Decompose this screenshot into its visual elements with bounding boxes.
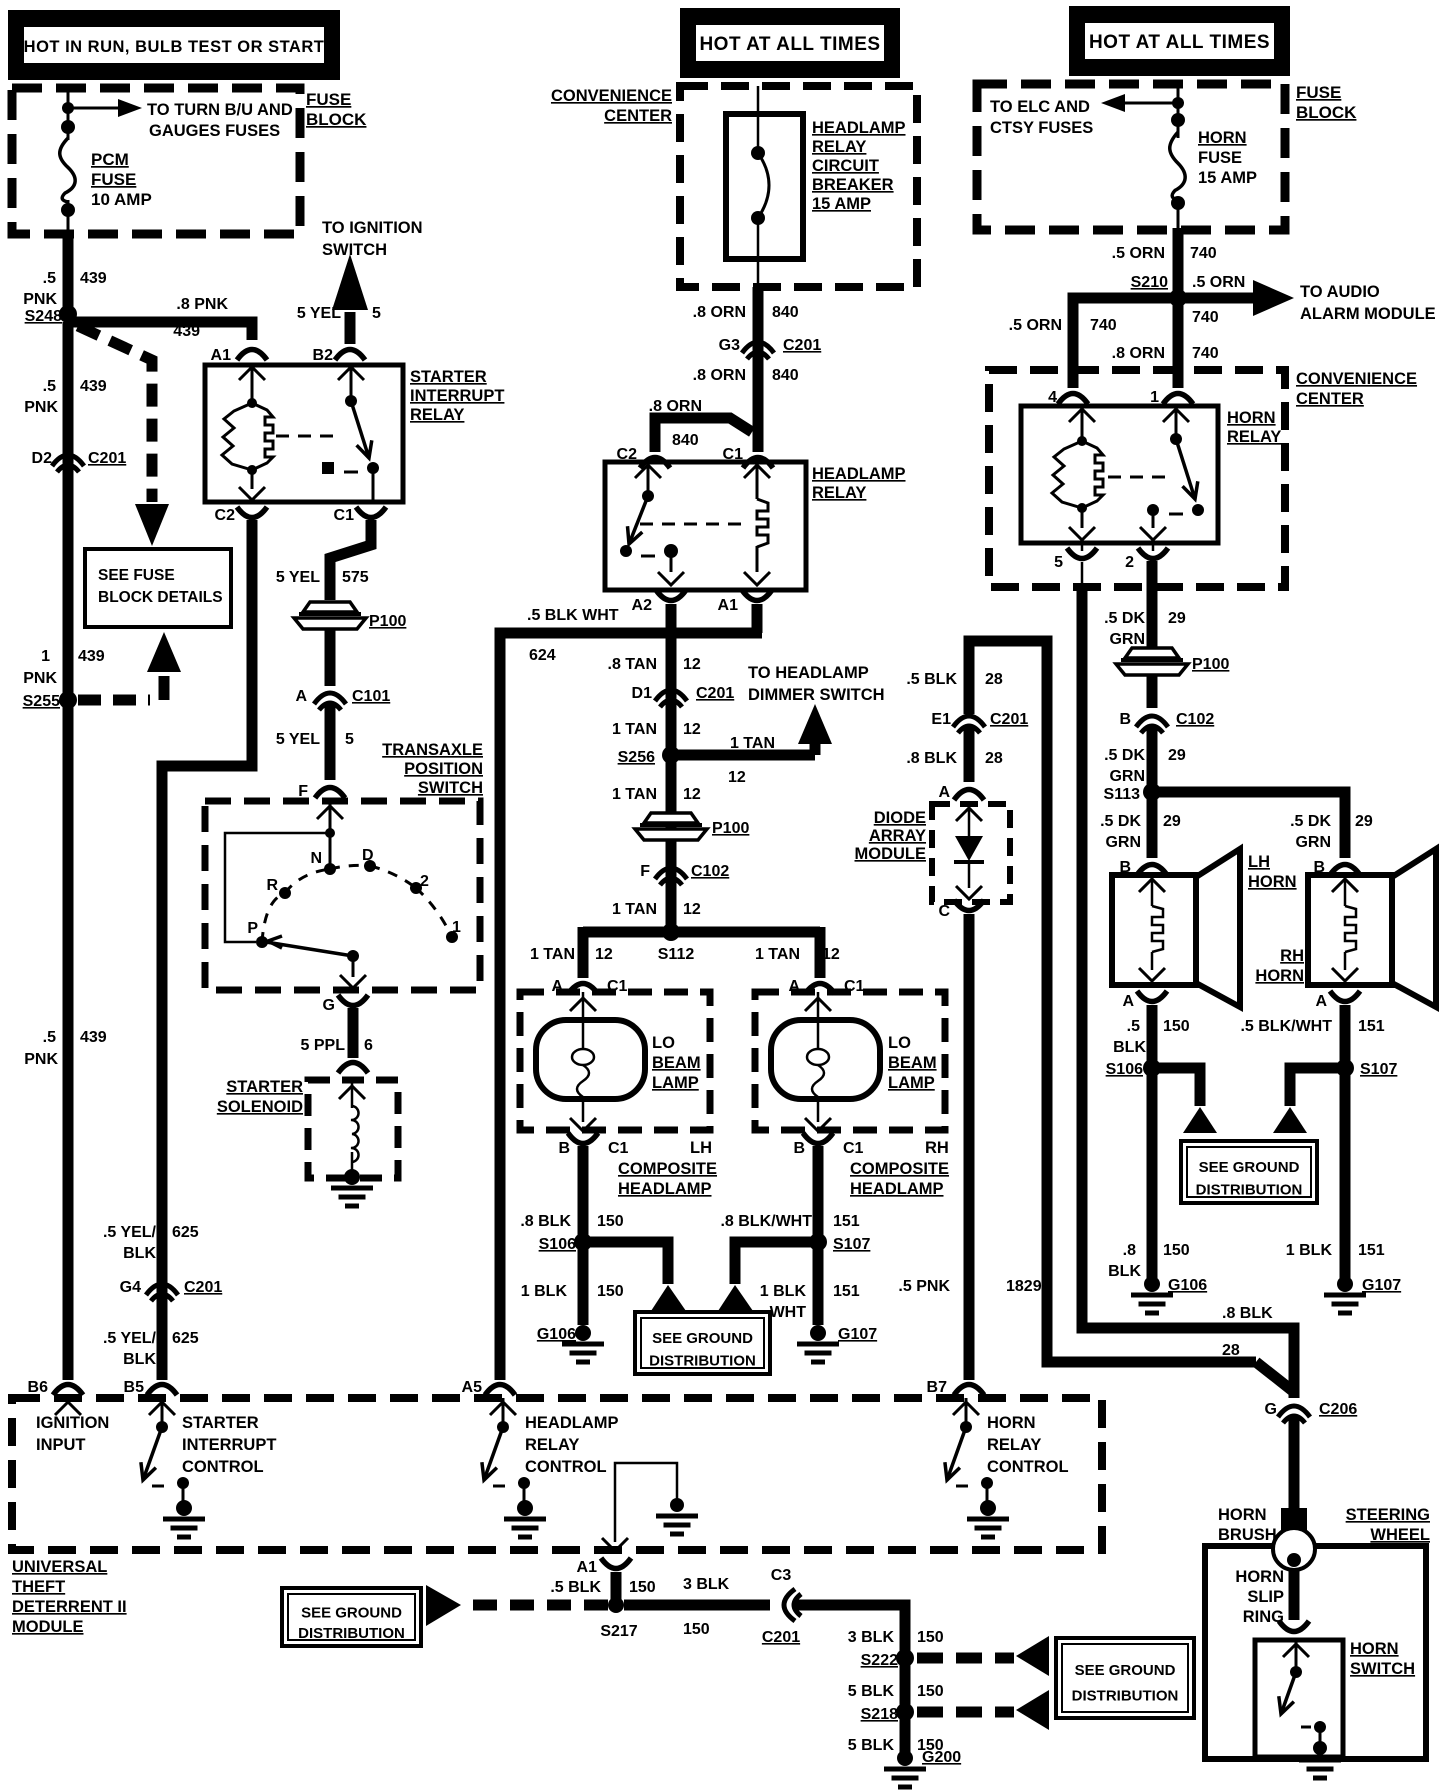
label 5 YEL 5 (276, 731, 354, 748)
svg-text:.5: .5 (43, 378, 56, 395)
svg-text:STARTER: STARTER (410, 368, 487, 386)
connector A C1 (RH lo beam) (788, 978, 864, 995)
label STARTER INTERRUPT RELAY (410, 368, 504, 424)
svg-text:HEADLAMP: HEADLAMP (618, 1180, 712, 1198)
label TO AUDIO ALARM MODULE (1300, 283, 1436, 323)
svg-text:S217: S217 (600, 1623, 637, 1640)
ground G107 (right) (1324, 1295, 1366, 1313)
ground (A1 internal) (656, 1516, 698, 1534)
LH lo beam lamp (520, 992, 710, 1131)
label .5 DK GRN 29 (LH) (1100, 813, 1181, 851)
horn relay contact wire (1140, 510, 1166, 540)
node dot (670, 1498, 684, 1512)
dashed wire S217 to ground distribution (464, 1600, 608, 1611)
svg-text:FUSE: FUSE (306, 90, 351, 109)
svg-text:29: 29 (1163, 813, 1181, 830)
svg-text:TO AUDIO: TO AUDIO (1300, 283, 1380, 301)
svg-text:HORN: HORN (1218, 1506, 1267, 1524)
svg-text:S256: S256 (618, 749, 655, 766)
theft module B6 wire in (55, 1402, 81, 1415)
svg-text:HEADLAMP: HEADLAMP (812, 465, 906, 483)
svg-text:RELAY: RELAY (525, 1436, 579, 1454)
wire S210 to audio alarm (1178, 293, 1253, 304)
svg-text:SEE GROUND: SEE GROUND (301, 1604, 402, 1621)
svg-text:INTERRUPT: INTERRUPT (182, 1436, 276, 1454)
svg-text:UNIVERSAL: UNIVERSAL (12, 1558, 107, 1576)
svg-text:150: 150 (1163, 1242, 1190, 1259)
connector E1 C201 (931, 711, 1028, 733)
label 740 (1192, 309, 1219, 326)
node dot (62, 102, 74, 114)
svg-text:C: C (938, 903, 950, 920)
theft module headlamp relay control switch (482, 1398, 546, 1537)
wire .5 BLK 150 (A1 to S217) (611, 1572, 622, 1605)
svg-text:HORN: HORN (1235, 1568, 1284, 1586)
svg-text:150: 150 (629, 1579, 656, 1596)
wire (1147, 674, 1158, 708)
connector D2 C201 (32, 450, 127, 472)
connector P100 (middle) (635, 813, 749, 840)
node S113 (1104, 783, 1161, 803)
svg-text:SWITCH: SWITCH (1350, 1660, 1415, 1678)
svg-text:15 AMP: 15 AMP (812, 195, 871, 213)
svg-text:LO: LO (652, 1034, 675, 1052)
svg-text:5 YEL: 5 YEL (276, 731, 320, 748)
svg-text:5 BLK: 5 BLK (848, 1683, 895, 1700)
wire S107 to ground distribution (735, 1242, 811, 1284)
horn brush (1273, 1508, 1315, 1570)
svg-text:INPUT: INPUT (36, 1436, 86, 1454)
connector B (RH horn) (1313, 859, 1360, 876)
label .5 DK GRN 29 (RH) (1290, 813, 1373, 851)
node S106 (right) (1106, 1059, 1161, 1078)
svg-text:GRN: GRN (1109, 768, 1145, 785)
svg-text:CONVENIENCE: CONVENIENCE (1296, 370, 1417, 388)
connector A5 (theft module) (462, 1379, 515, 1396)
svg-text:S255: S255 (23, 693, 60, 710)
svg-text:P: P (247, 920, 258, 937)
node G107 (810, 1325, 877, 1343)
box SEE GROUND DISTRIBUTION (bottom left) (282, 1588, 421, 1646)
label .5 PNK 439 (23, 270, 107, 308)
svg-text:5: 5 (1054, 554, 1063, 571)
RH horn (1308, 849, 1436, 1007)
svg-text:12: 12 (683, 656, 701, 673)
label .8 ORN 840 (693, 367, 799, 384)
svg-text:439: 439 (80, 270, 107, 287)
wire 5 YEL 575 (C1 to P100) (330, 520, 371, 600)
wire pin5 to C206 (1082, 586, 1294, 1398)
node G200 (897, 1749, 961, 1766)
node dot (247, 465, 257, 475)
solenoid wire in (339, 1080, 365, 1108)
svg-text:.5: .5 (43, 1029, 56, 1046)
label 12 (728, 769, 746, 786)
svg-text:4: 4 (1048, 389, 1057, 406)
svg-text:150: 150 (597, 1283, 624, 1300)
label .8 PNK 439 (173, 296, 228, 340)
connector pin 4 (horn relay) (1048, 389, 1088, 406)
arrow into see ground distribution (1273, 1107, 1307, 1133)
relay box starter interrupt relay (205, 365, 403, 502)
svg-text:BREAKER: BREAKER (812, 176, 894, 194)
label .8 BLK 150 (520, 1213, 623, 1230)
contact R (266, 877, 291, 899)
label UNIVERSAL THEFT DETERRENT II MODULE (12, 1558, 127, 1636)
svg-text:12: 12 (728, 769, 746, 786)
label 1 TAN (730, 735, 775, 752)
label SEE FUSE BLOCK DETAILS (98, 567, 223, 606)
svg-text:G: G (1265, 1401, 1277, 1418)
svg-text:S222: S222 (861, 1652, 898, 1669)
wire .5 PNK 1829 (C to B7) (964, 914, 975, 1380)
svg-text:.8 BLK: .8 BLK (906, 750, 957, 767)
connector A2 (headlamp relay) (632, 590, 686, 614)
svg-text:N: N (310, 850, 322, 867)
svg-text:A: A (1122, 993, 1134, 1010)
arrow from see ground distribution (426, 1585, 461, 1626)
connector D1 C201 (632, 685, 735, 707)
label .5 DK GRN 29 (1104, 610, 1186, 648)
svg-text:LO: LO (888, 1034, 911, 1052)
label STARTER INTERRUPT CONTROL (182, 1414, 276, 1476)
wire .8 ORN 840 (753, 287, 764, 452)
label 1 BLK WHT 151 (760, 1283, 860, 1321)
svg-text:RELAY: RELAY (987, 1436, 1041, 1454)
svg-text:.5 BLK WHT: .5 BLK WHT (527, 607, 619, 624)
contact 2 (410, 873, 429, 894)
svg-text:PNK: PNK (24, 399, 58, 416)
banner HOT AT ALL TIMES (middle) (680, 8, 900, 78)
label .5 ORN 740 (1112, 245, 1217, 262)
svg-text:625: 625 (172, 1330, 199, 1347)
svg-text:C101: C101 (352, 688, 390, 705)
connector pin 5 (horn relay) (1054, 543, 1097, 588)
svg-text:3 BLK: 3 BLK (683, 1576, 730, 1593)
label .8 BLK 28 (906, 750, 1003, 767)
wire S106 to ground distribution (590, 1242, 668, 1284)
label S210 .5 ORN (1131, 274, 1246, 291)
headlamp relay switch wire in (635, 462, 661, 496)
label 1 TAN 12 (612, 786, 701, 803)
starter solenoid dashed box (308, 1080, 398, 1178)
svg-text:840: 840 (772, 304, 799, 321)
horn relay coil wire in (1069, 406, 1095, 441)
label DIODE ARRAY MODULE (855, 809, 927, 863)
label PCM FUSE 10 AMP (91, 150, 152, 209)
label 1 BLK 151 (1286, 1242, 1385, 1259)
svg-text:B: B (793, 1140, 805, 1157)
svg-text:C1: C1 (843, 1140, 864, 1157)
svg-text:HEADLAMP: HEADLAMP (525, 1414, 619, 1432)
svg-text:A: A (295, 688, 307, 705)
label .5 ORN 740 (1009, 317, 1117, 334)
wire .5 BLK 150 (LH horn) (1147, 1005, 1158, 1278)
arrow from see ground distribution (lower) (1016, 1690, 1049, 1730)
node S256 (618, 746, 680, 766)
connector B C102 (1119, 711, 1214, 733)
wire .5 BLK/WHT 151 (RH horn) (1340, 1005, 1351, 1278)
label .5 BLK 28 (906, 671, 1003, 688)
svg-text:PNK: PNK (24, 1051, 58, 1068)
headlamp relay switch blade (628, 490, 655, 544)
svg-text:CTSY FUSES: CTSY FUSES (990, 119, 1093, 137)
wire .5 BLK WHT 624 (A1 to A5) (500, 604, 762, 1380)
svg-text:C1: C1 (608, 1140, 629, 1157)
svg-text:SOLENOID: SOLENOID (217, 1098, 303, 1116)
connector pin 2 (horn relay) (1125, 543, 1168, 571)
svg-text:GRN: GRN (1105, 834, 1141, 851)
svg-text:DISTRIBUTION: DISTRIBUTION (1072, 1688, 1179, 1705)
horn relay coil (1052, 441, 1103, 508)
svg-text:C201: C201 (696, 685, 734, 702)
svg-text:LAMP: LAMP (888, 1074, 935, 1092)
wire S106 to ground distribution (right) (1159, 1068, 1200, 1106)
svg-text:HORN: HORN (1227, 409, 1276, 427)
box SEE GROUND DISTRIBUTION (right) (1181, 1141, 1317, 1203)
svg-text:FUSE: FUSE (1296, 83, 1341, 102)
svg-text:RELAY: RELAY (812, 138, 866, 156)
svg-text:P100: P100 (712, 820, 749, 837)
svg-text:SWITCH: SWITCH (418, 779, 483, 797)
svg-text:28: 28 (985, 750, 1003, 767)
ground G106 (562, 1344, 604, 1362)
headlamp relay coil wire out (744, 546, 770, 585)
svg-text:S248: S248 (25, 308, 62, 325)
svg-text:.8 ORN: .8 ORN (1112, 345, 1165, 362)
svg-text:RH: RH (1280, 947, 1304, 965)
svg-text:.5 ORN: .5 ORN (1192, 274, 1245, 291)
svg-text:HORN: HORN (987, 1414, 1036, 1432)
wire .5 PNK 439 (S248 down) (63, 322, 74, 1380)
label .5 BLK 150 (1113, 1018, 1190, 1056)
banner HOT AT ALL TIMES (right) (1069, 6, 1290, 76)
svg-text:2: 2 (1125, 554, 1134, 571)
connector C (diode array module) (938, 900, 984, 920)
svg-text:12: 12 (683, 901, 701, 918)
svg-text:150: 150 (597, 1213, 624, 1230)
relay switch contact wire (372, 468, 375, 500)
connector P100 (right) (1116, 648, 1229, 675)
node G106 (right) (1144, 1276, 1207, 1294)
label CONVENIENCE CENTER (right) (1296, 370, 1417, 408)
wire to P contact (225, 833, 330, 942)
svg-text:151: 151 (1358, 1018, 1385, 1035)
node G107 (right) (1337, 1276, 1401, 1294)
svg-text:TO ELC AND: TO ELC AND (990, 98, 1090, 116)
label 5 PPL 6 (301, 1037, 373, 1054)
svg-text:S107: S107 (1360, 1061, 1397, 1078)
arrow into see ground distribution (1183, 1107, 1217, 1133)
svg-text:GAUGES FUSES: GAUGES FUSES (149, 122, 280, 140)
svg-text:.5 PNK: .5 PNK (898, 1278, 950, 1295)
fuse block dashed box (right) (977, 84, 1285, 230)
label HEADLAMP RELAY CIRCUIT BREAKER 15 AMP (812, 119, 906, 213)
svg-text:1 TAN: 1 TAN (530, 946, 575, 963)
svg-text:BLK: BLK (1108, 1263, 1141, 1280)
label 5 YEL 575 (276, 569, 369, 586)
label FUSE BLOCK (left) (306, 90, 367, 129)
ground G107 (797, 1344, 839, 1362)
wire .5 ORN 740 (1173, 228, 1184, 388)
svg-text:E1: E1 (931, 711, 951, 728)
label 840 (672, 432, 699, 449)
connector F (transaxle position switch) (298, 783, 345, 800)
svg-text:A1: A1 (577, 1559, 598, 1576)
connector A1 (starter interrupt relay) (211, 347, 267, 364)
svg-text:CIRCUIT: CIRCUIT (812, 157, 879, 175)
svg-text:C1: C1 (334, 507, 355, 524)
svg-text:5 PPL: 5 PPL (301, 1037, 346, 1054)
diode D1 (954, 836, 984, 862)
svg-text:SLIP: SLIP (1247, 1588, 1284, 1606)
label 1 TAN 12 (755, 946, 840, 963)
svg-text:A1: A1 (718, 597, 739, 614)
dashed wire S255 to arrow (78, 676, 164, 700)
label RH COMPOSITE HEADLAMP (850, 1139, 949, 1198)
label HORN SLIP RING (1235, 1568, 1284, 1626)
headlamp relay coil (757, 499, 768, 547)
svg-text:WHT: WHT (770, 1304, 807, 1321)
svg-text:1 TAN: 1 TAN (730, 735, 775, 752)
connector A1 (headlamp relay) (718, 590, 772, 614)
svg-text:RH: RH (925, 1139, 949, 1157)
connector B C1 (LH composite headlamp) (558, 1133, 628, 1157)
svg-text:INTERRUPT: INTERRUPT (410, 387, 504, 405)
RH lo beam lamp (755, 992, 945, 1131)
convenience center dashed box (right) (989, 370, 1285, 587)
connector B7 (theft module) (927, 1379, 984, 1396)
svg-text:439: 439 (80, 378, 107, 395)
svg-text:C201: C201 (990, 711, 1028, 728)
solenoid coil wire (351, 1152, 354, 1172)
svg-text:HOT IN RUN, BULB TEST OR START: HOT IN RUN, BULB TEST OR START (24, 38, 325, 56)
arrow to ELC fuses (1101, 94, 1178, 112)
svg-text:HEADLAMP: HEADLAMP (850, 1180, 944, 1198)
svg-text:740: 740 (1192, 345, 1219, 362)
svg-text:5: 5 (372, 305, 381, 322)
svg-text:RELAY: RELAY (812, 484, 866, 502)
svg-text:POSITION: POSITION (404, 760, 483, 778)
svg-text:RELAY: RELAY (410, 406, 464, 424)
svg-text:625: 625 (172, 1224, 199, 1241)
connector B6 (theft module) (28, 1379, 83, 1396)
svg-text:B: B (1119, 711, 1131, 728)
relay coil (starter interrupt) (222, 403, 273, 470)
svg-text:.8 BLK/WHT: .8 BLK/WHT (720, 1213, 812, 1230)
box SEE FUSE BLOCK DETAILS (85, 549, 231, 627)
svg-text:PNK: PNK (23, 291, 57, 308)
svg-text:G106: G106 (537, 1326, 576, 1343)
horn switch wire in (1283, 1640, 1309, 1672)
arrow up into SEE FUSE BLOCK DETAILS (147, 632, 181, 672)
svg-text:12: 12 (822, 946, 840, 963)
svg-text:1 TAN: 1 TAN (755, 946, 800, 963)
svg-text:1829: 1829 (1006, 1278, 1042, 1295)
node S210 (1169, 289, 1187, 307)
node dot (1171, 196, 1185, 210)
label 1 BLK 150 (521, 1283, 624, 1300)
wire C2 to B5 (162, 520, 252, 1380)
svg-text:.5 DK: .5 DK (1100, 813, 1141, 830)
svg-text:B2: B2 (313, 347, 334, 364)
svg-text:BLK: BLK (123, 1245, 156, 1262)
svg-text:F: F (640, 863, 650, 880)
headlamp relay contact wire (658, 551, 684, 585)
label FUSE BLOCK (right) (1296, 83, 1357, 122)
svg-text:C201: C201 (783, 337, 821, 354)
svg-text:FUSE: FUSE (91, 170, 136, 189)
ground G106 (right) (1131, 1295, 1173, 1313)
banner HOT IN RUN BULB TEST OR START (8, 10, 340, 80)
wire (1147, 726, 1158, 858)
svg-text:G107: G107 (1362, 1277, 1401, 1294)
connector B C1 (RH composite headlamp) (793, 1133, 863, 1157)
svg-text:COMPOSITE: COMPOSITE (850, 1160, 949, 1178)
arrow down into SEE FUSE BLOCK DETAILS (135, 504, 169, 546)
svg-text:TRANSAXLE: TRANSAXLE (382, 741, 483, 759)
breaker internal wire (757, 218, 760, 290)
svg-text:BLOCK: BLOCK (306, 110, 367, 129)
svg-text:STEERING: STEERING (1346, 1506, 1430, 1524)
svg-text:1 TAN: 1 TAN (612, 901, 657, 918)
relay switch wire in (338, 365, 364, 401)
svg-text:10 AMP: 10 AMP (91, 190, 152, 209)
svg-text:.8 BLK: .8 BLK (1222, 1305, 1273, 1322)
svg-text:840: 840 (772, 367, 799, 384)
svg-text:BLK: BLK (1113, 1039, 1146, 1056)
node dot (751, 146, 765, 160)
connector G4 C201 (120, 1279, 223, 1301)
svg-text:C2: C2 (215, 507, 236, 524)
wire to horn brush (1289, 1416, 1300, 1520)
connector A (RH horn) (1315, 991, 1360, 1010)
connector P100 (left) (294, 602, 406, 630)
label HORN RELAY (1227, 409, 1281, 446)
svg-text:2: 2 (420, 873, 429, 890)
svg-text:B: B (558, 1140, 570, 1157)
label .8 ORN 840 (693, 304, 799, 321)
svg-text:P100: P100 (1192, 656, 1229, 673)
svg-text:TO HEADLAMP: TO HEADLAMP (748, 664, 869, 682)
wire 1 TAN 12 branch to dimmer switch (671, 742, 815, 755)
label RH HORN (1255, 947, 1304, 985)
wire (325, 703, 336, 780)
node S222 (861, 1649, 914, 1669)
svg-text:C102: C102 (1176, 711, 1214, 728)
svg-text:C102: C102 (691, 863, 729, 880)
solenoid coil (351, 1106, 359, 1162)
svg-text:CENTER: CENTER (1296, 390, 1364, 408)
label LH HORN (1248, 853, 1297, 891)
label 3 BLK 150 (683, 1576, 730, 1638)
svg-text:.8 ORN: .8 ORN (693, 304, 746, 321)
svg-text:150: 150 (683, 1621, 710, 1638)
arrow TO HEADLAMP DIMMER SWITCH (798, 704, 832, 744)
svg-text:BLOCK: BLOCK (1296, 103, 1357, 122)
svg-text:CONVENIENCE: CONVENIENCE (551, 87, 672, 105)
horn relay switch wire in (1163, 406, 1189, 439)
label TO TURN B/U AND GAUGES FUSES (147, 101, 293, 140)
svg-text:1 BLK: 1 BLK (1286, 1242, 1333, 1259)
horn slip ring wire (1289, 1570, 1300, 1620)
connector G (transaxle position switch) (323, 995, 368, 1014)
label .5 YEL/BLK 625 (103, 1224, 199, 1262)
svg-text:740: 740 (1192, 309, 1219, 326)
svg-text:.5 DK: .5 DK (1104, 610, 1145, 627)
ground (starter solenoid) (331, 1188, 373, 1206)
svg-text:1 TAN: 1 TAN (612, 786, 657, 803)
